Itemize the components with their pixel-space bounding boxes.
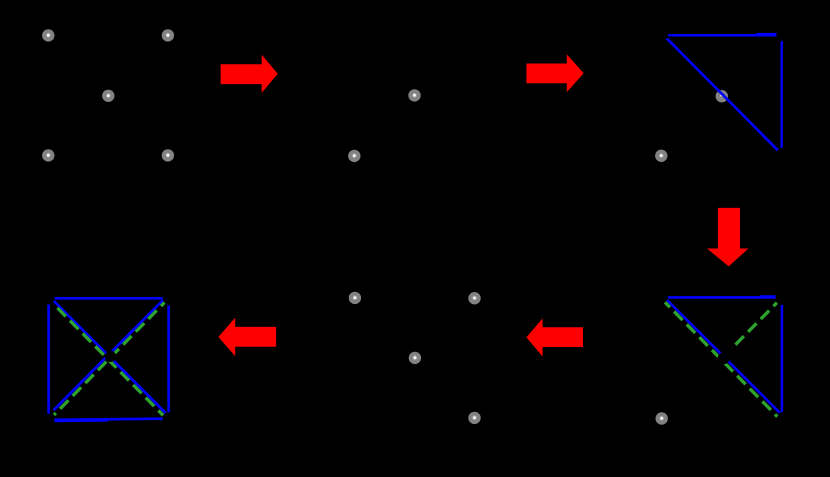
wire D right edge P2-P5 [167, 305, 170, 412]
wire D bottom edge overlap [54, 419, 108, 422]
wire F hypotenuse P1-P5 [667, 300, 780, 413]
arrow left bottom-right [526, 318, 583, 356]
wire C right edge P2-P5 [781, 41, 783, 148]
wire C top edge P1-P2 [668, 34, 776, 37]
node B4 [348, 150, 360, 162]
node D3 black occluder [105, 351, 116, 362]
node C3 [716, 90, 728, 102]
node A5 [162, 149, 174, 161]
node F3 black occluder [718, 352, 730, 364]
node E1 [349, 292, 361, 304]
node E3 [409, 352, 421, 364]
node A1 [42, 29, 54, 41]
arrow down right side [707, 208, 749, 267]
wire D green dashed P1-P5 [55, 305, 164, 415]
wire D green dashed P2-P4 [54, 303, 165, 416]
wire F green dashed P2-P3 [731, 303, 777, 349]
node A4 [42, 149, 54, 161]
node E5 [468, 412, 480, 424]
node C4 [655, 150, 667, 162]
wire D diagonal P1-P5 [54, 301, 166, 413]
wire D diagonal P2-P4 [54, 300, 163, 410]
node B3 [408, 89, 420, 101]
arrow right top-right [526, 54, 583, 92]
wire C top edge overlap [757, 33, 777, 36]
wire C hypotenuse P1-P5 [667, 38, 778, 150]
wire D bottom edge P4-P5 [54, 419, 162, 420]
wire D left edge P1-P4 [47, 305, 50, 414]
arrow left bottom-left [218, 318, 276, 357]
wire F top edge P1-P2 [668, 296, 776, 299]
wire F right edge P2-P5 [781, 305, 784, 412]
wire F green dashed P1-P5 [665, 302, 777, 416]
node A2 [162, 29, 174, 41]
node A3 [102, 90, 114, 102]
wire D top edge P1-P2 [55, 297, 163, 300]
wire F top edge overlap [760, 295, 776, 297]
arrow right top-left [221, 55, 278, 93]
node E2 [468, 292, 480, 304]
node F4 [656, 412, 668, 424]
